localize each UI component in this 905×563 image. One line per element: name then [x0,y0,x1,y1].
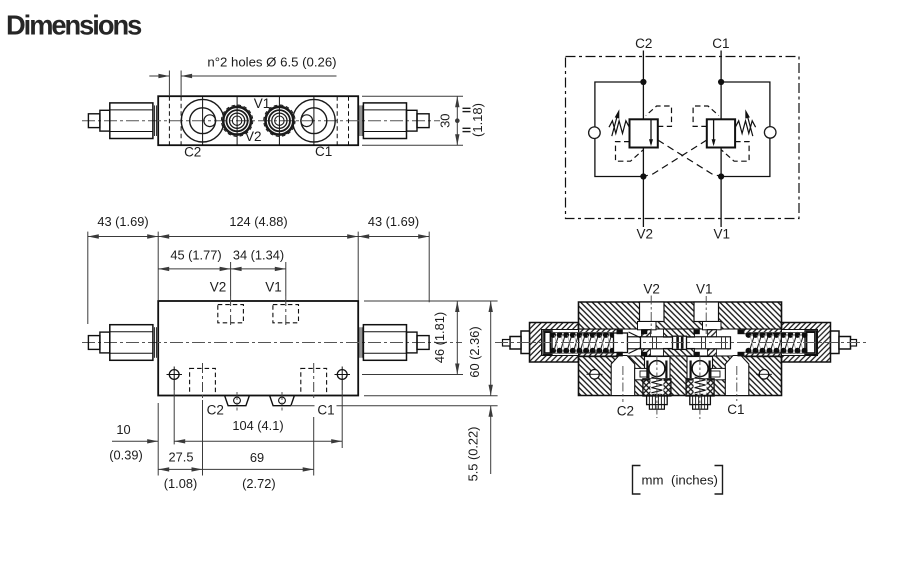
counterbalance valve left spring [609,121,629,134]
adjust screw tip [839,337,851,350]
counterbalance valve left adjust arrow [612,113,618,136]
section spring left [550,332,556,338]
port C2 hidden square [190,368,216,395]
mounting hole left [169,370,179,380]
schematic left bypass check line [595,82,644,177]
svg-text:V2: V2 [245,129,262,144]
svg-text:46 (1.81): 46 (1.81) [432,312,447,363]
svg-text:104 (4.1): 104 (4.1) [232,418,283,433]
front view valve body [158,301,358,396]
top view hole hidden lines right [336,96,338,145]
svg-text:30: 30 [438,113,453,127]
check valve right [764,127,776,139]
counterbalance valve right spring [735,121,755,134]
section V1 cavity [694,302,719,322]
svg-text:V2: V2 [643,282,660,297]
cartridge sleeve hatched bands [579,329,618,334]
svg-text:C1: C1 [712,36,729,51]
top view valve body [158,96,358,145]
svg-text:Dimensions: Dimensions [6,10,142,41]
svg-text:C2: C2 [617,403,634,418]
relief cavity V2 top view circles [221,105,252,136]
adjust screw tip [510,337,521,350]
adjuster plate [805,331,817,355]
port C1 top view circles [293,99,336,142]
relief valve assembly [643,379,671,396]
svg-text:C2: C2 [635,36,652,51]
section relief pocket left [645,357,671,381]
svg-text:n°2 holes Ø 6.5 (0.26): n°2 holes Ø 6.5 (0.26) [207,55,336,70]
svg-text:V1: V1 [265,280,282,295]
svg-text:(1.08): (1.08) [164,476,197,491]
svg-text:43 (1.69): 43 (1.69) [368,214,419,229]
section spring right [746,332,752,338]
cross pilot line right to left [643,140,706,177]
svg-text:43 (1.69): 43 (1.69) [97,214,148,229]
top view port centerlines vertical [202,96,204,145]
svg-text:(inches): (inches) [671,473,718,488]
svg-text:60 (2.36): 60 (2.36) [467,326,482,377]
front view left cartridge [110,325,153,361]
svg-text:(1.18): (1.18) [470,103,485,137]
section mounting hole right [759,370,769,380]
svg-text:10: 10 [116,422,130,437]
top view centerline [82,120,440,122]
schematic line C2 to V2 [642,51,644,228]
port V1 hidden square [273,305,299,323]
section V1 port centerline [705,296,707,334]
relief cap stub right [270,396,295,406]
section left cartridge [530,323,579,363]
relief cap stub left [225,396,250,406]
left pilot line lower [616,142,644,162]
counterbalance valve right adjust arrow [747,113,753,136]
svg-text:C1: C1 [315,144,332,159]
top view hole hidden lines left [168,96,170,145]
dimension 46 vertical [362,374,463,376]
section C1 port centerline [736,366,738,401]
section seal blocks [617,330,623,335]
right pilot line upper [693,106,719,126]
section center hatched column blocks [664,329,695,337]
section right cartridge [782,323,831,363]
schematic valve envelope boundary [566,57,800,219]
section poppet guides [642,330,651,337]
adjuster plate [543,331,552,355]
dimension 5.5 vertical [292,405,315,407]
mounting hole right [337,370,347,380]
left pilot line upper [646,106,672,126]
check valve left [589,127,601,139]
svg-text:V1: V1 [254,96,271,111]
section relief pocket right [687,357,713,381]
svg-text:V2: V2 [636,227,653,242]
section relief centerline right [699,356,701,419]
svg-text:45 (1.77): 45 (1.77) [170,248,221,263]
front view right cartridge [363,325,406,361]
counterbalance valve right body [707,119,735,147]
dimension 30 (1.18) top view height [362,95,463,97]
counterbalance valve left body [630,119,658,147]
section C2 port centerline [622,366,624,402]
right pilot line lower [721,142,749,162]
section V2 port centerline [650,296,652,335]
dimension 60 vertical [364,395,498,397]
section mounting hole left [590,370,600,380]
front view centerline [82,342,462,344]
port C1 hidden square [301,368,327,395]
section spool rod [641,337,731,349]
junction dots [640,79,646,85]
top view right cartridge hex [363,103,406,139]
svg-text:mm: mm [642,473,664,488]
section V2 cavity [640,302,665,322]
cross pilot line left to right [658,140,721,177]
cartridge sleeve hatched bands [744,329,782,334]
lock nut [831,331,840,354]
svg-text:69: 69 [250,450,264,465]
section spool and seats [614,333,628,353]
svg-text:C2: C2 [207,403,224,418]
port V2 hidden square [218,305,244,323]
svg-text:V1: V1 [696,282,713,297]
schematic line C1 to V1 [720,51,722,228]
svg-text:C1: C1 [317,403,334,418]
port C2 top view circles [181,99,224,142]
svg-text:V2: V2 [210,280,227,295]
lock nut [521,331,530,354]
svg-text:27.5: 27.5 [169,450,194,465]
relief cavity V1 top view circles [264,105,295,136]
svg-text:34 (1.34): 34 (1.34) [233,248,284,263]
schematic right bypass check line [721,82,770,177]
relief valve assembly [686,379,714,396]
section rod coupler [673,336,687,349]
svg-text:(0.39): (0.39) [109,448,142,463]
section bore cutout [579,329,782,356]
top view left cartridge hex [110,103,153,139]
svg-text:V1: V1 [714,227,731,242]
section C1 port drilling [725,356,749,396]
section relief centerline left [656,356,658,418]
section body hatched block [579,302,782,396]
svg-text:C1: C1 [727,402,744,417]
svg-text:C2: C2 [184,145,201,160]
svg-text:5.5 (0.22): 5.5 (0.22) [466,427,481,482]
section C2 port drilling [611,356,635,396]
svg-text:124 (4.88): 124 (4.88) [229,214,287,229]
section centerline [495,342,868,344]
svg-text:(2.72): (2.72) [242,476,275,491]
